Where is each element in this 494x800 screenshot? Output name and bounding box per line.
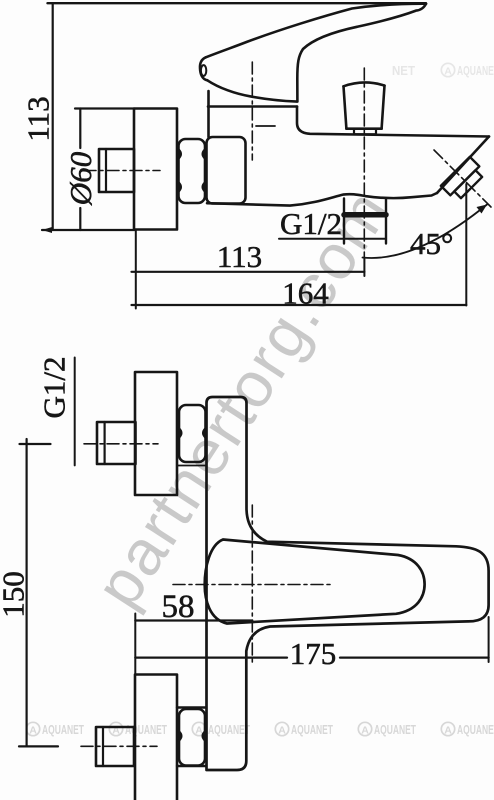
diverter knob bottom <box>346 127 381 130</box>
diverter centerline vertical <box>363 68 365 258</box>
pipe stub end cap line <box>105 149 107 192</box>
diverter knob stem <box>354 129 376 135</box>
faucet body front silhouette <box>207 397 489 770</box>
top supply pipe stub <box>97 422 136 464</box>
bottom escutcheon plate <box>135 675 177 800</box>
cartridge axis centerline <box>251 62 253 160</box>
handle heel curve <box>207 80 297 101</box>
dimension line 175 left part <box>135 656 287 658</box>
small arrow on bottom extension line <box>42 227 52 233</box>
bottom nut waist right <box>203 732 205 741</box>
svg-text:A: A <box>29 724 37 736</box>
body left edge <box>207 91 210 137</box>
bottom hex nut bottom line <box>177 765 206 767</box>
diverter knob top arc <box>344 82 385 86</box>
svg-text:G1/2: G1/2 <box>37 357 72 419</box>
45 degree leader arc <box>363 205 488 258</box>
nut facet pinch right upper <box>203 150 205 159</box>
bottom pipe centerline <box>81 745 157 747</box>
extension line right end of handle <box>488 617 490 662</box>
extension line top / lever top ridge <box>48 2 427 4</box>
top nut waist left <box>179 429 181 438</box>
handle butt cap <box>200 57 207 80</box>
svg-text:G1/2: G1/2 <box>280 206 342 241</box>
nut facet pinch left upper <box>179 150 181 159</box>
svg-text:175: 175 <box>290 636 337 671</box>
dimension line diameter 60 upper segment <box>79 109 81 149</box>
handle grip bullet front view <box>205 540 425 624</box>
shower outlet fitting left edge <box>343 199 345 244</box>
spout end 45 degree cut <box>437 137 489 194</box>
lever blade back curve to tip <box>206 4 426 58</box>
dimension line 164 <box>132 304 467 306</box>
svg-text:113: 113 <box>21 96 56 141</box>
wall supply pipe stub <box>99 149 134 192</box>
extension line diameter top <box>75 107 134 109</box>
bottom hex nut top line <box>177 706 206 708</box>
dimension line 113 horizontal <box>132 271 365 273</box>
top nut waist right <box>203 429 205 438</box>
svg-text:164: 164 <box>282 276 329 311</box>
top pipe end cap line <box>103 422 105 464</box>
diverter knob right side <box>382 86 385 129</box>
top nut lower line <box>177 465 206 467</box>
dimension line 150 <box>26 439 28 746</box>
nozzle axis centerline 45 degrees <box>434 150 491 207</box>
neck front curve <box>297 4 426 102</box>
watermark diagonal partnertorg.com <box>81 176 404 619</box>
extension line at shower fitting center <box>363 258 365 276</box>
arrowhead of 45 arc <box>477 205 488 214</box>
dimension line diameter 60 lower segment <box>79 208 81 230</box>
150 extension line bottom <box>19 745 58 747</box>
spout and body underside <box>207 193 437 206</box>
valve body boss rounded rectangle <box>207 137 246 204</box>
svg-text:58: 58 <box>162 589 195 625</box>
watermark AQUANET logo row <box>26 63 494 737</box>
G1/2 leader line vertical <box>74 358 76 466</box>
dimension line 58 <box>135 619 252 621</box>
wall face extension line <box>134 614 136 676</box>
svg-text:AQUANET: AQUANET <box>42 722 84 737</box>
top pipe centerline <box>84 443 158 445</box>
diverter knob left side <box>344 86 347 128</box>
G1/2 leader underline <box>279 238 386 240</box>
handle butt screw ellipse <box>201 65 206 76</box>
bottom hex nut <box>179 709 205 766</box>
svg-text:113: 113 <box>217 239 262 274</box>
vertical reference line for angle and 164 <box>465 184 467 306</box>
bottom supply pipe stub <box>96 727 134 766</box>
body right edge into spout <box>297 107 489 137</box>
dimension line 175 right part <box>340 656 489 658</box>
150 extension line top <box>20 443 51 445</box>
bottom nut waist left <box>179 732 181 741</box>
shower outlet thread band <box>344 212 386 218</box>
extension line left wall face <box>135 230 137 309</box>
extension line bottom of escutcheon <box>42 229 135 231</box>
svg-text:Ø60: Ø60 <box>63 151 98 206</box>
svg-text:150: 150 <box>0 571 31 618</box>
nut facet pinch right lower <box>203 183 205 192</box>
valve axis centerline vertical <box>251 505 253 662</box>
bottom pipe end cap line <box>102 727 104 766</box>
cartridge cap top line <box>208 105 297 108</box>
hex connection nut side view <box>179 139 206 203</box>
dimension line 113 vertical <box>52 3 54 230</box>
svg-text:NET: NET <box>392 63 415 78</box>
aerator nozzle on 45 degree cut <box>441 157 486 202</box>
cartridge cross tick <box>256 125 275 127</box>
valve axis centerline horizontal <box>173 584 334 586</box>
svg-text:45°: 45° <box>410 226 453 261</box>
wall escutcheon plate side view <box>134 109 177 230</box>
nut facet pinch left lower <box>179 183 181 192</box>
pipe centerline <box>84 170 160 172</box>
top hex nut <box>179 405 206 462</box>
top escutcheon plate <box>135 372 177 495</box>
shower outlet fitting right edge <box>385 199 387 244</box>
